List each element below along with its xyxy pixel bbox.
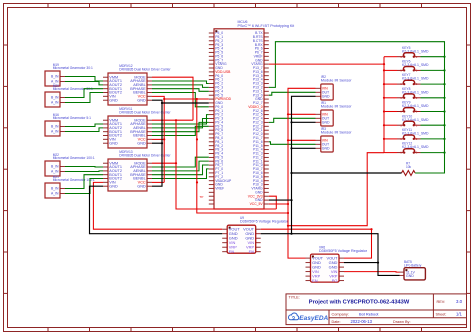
wire M22.B_IN to MDRV13.AOUT1	[65, 166, 103, 169]
wire rail to KEY6.1	[384, 69, 397, 71]
svg-text:DRV8835 Dual Motor Driver Carr: DRV8835 Dual Motor Driver Carrier	[119, 153, 171, 157]
svg-text:D36V50F5 Voltage Regulator: D36V50F5 Voltage Regulator	[319, 249, 368, 253]
EasyEDA logo	[288, 313, 328, 322]
wire rail to KEY7.1	[384, 83, 397, 85]
wire IR1.GND stub	[292, 121, 316, 123]
svg-text:PG: PG	[332, 278, 338, 283]
svg-text:A_IN: A_IN	[51, 101, 59, 105]
svg-text:VCC_5V: VCC_5V	[250, 202, 264, 206]
svg-text:EN: EN	[312, 278, 318, 283]
svg-text:A_IN: A_IN	[51, 170, 59, 174]
wire rail to KEY8.1	[384, 97, 397, 99]
svg-text:Date:: Date:	[332, 320, 341, 324]
svg-text:GND: GND	[406, 274, 414, 278]
wire M21.B_IN to MDRV13.BOUT1	[65, 175, 103, 189]
battery BAT5 LiPo	[400, 260, 426, 280]
svg-text:Micrometal Gearmotor 100:1: Micrometal Gearmotor 100:1	[53, 178, 95, 182]
wire MDRV13.APHASE to MCU	[152, 157, 209, 167]
svg-text:B_IN: B_IN	[51, 165, 59, 169]
svg-text:GND: GND	[322, 121, 330, 125]
voltage regulator U9 D36V50F5	[222, 216, 289, 254]
wire VR6.VIN to BAT5 11.1V	[344, 271, 400, 274]
svg-text:GND: GND	[137, 141, 146, 145]
wire M19.B_IN to MDRV12.AOUT1	[65, 77, 103, 82]
wire MDRV11.AENBL to MCU	[152, 119, 209, 128]
motor M19 Micrometal Gearmotor 30:1	[45, 63, 93, 86]
svg-text:Micrometal Gearmotor 5:1: Micrometal Gearmotor 5:1	[53, 116, 91, 120]
wire KEY6.2 to bus	[421, 69, 445, 71]
IR sensor IR1 Module IR Sensor	[316, 101, 353, 126]
svg-text:A_IN: A_IN	[51, 130, 59, 134]
svg-text:EasyEDA: EasyEDA	[299, 315, 328, 322]
junction GND left	[161, 102, 163, 104]
wire MDRV13.BPHASE to MCU	[152, 165, 209, 175]
wire IR3.GND stub	[292, 147, 316, 149]
wire MDRV11.VCC stub	[152, 138, 164, 140]
wire MCU to key bus net KEYS	[269, 42, 445, 173]
motor M21 Micrometal Gearmotor 100:1	[45, 175, 95, 198]
svg-text:Sheet:: Sheet:	[436, 313, 447, 317]
resistor R7 10k	[402, 161, 416, 175]
svg-text:Company:: Company:	[332, 313, 349, 317]
wire MDRV12.BPHASE to MCU	[152, 89, 209, 92]
wire driver right GND bus	[152, 100, 162, 186]
svg-text:GND: GND	[137, 98, 146, 102]
svg-text:Micrometal Gearmotor 30:1: Micrometal Gearmotor 30:1	[53, 66, 93, 70]
wire KEY12.2 to bus	[421, 152, 445, 154]
svg-text:A_IN: A_IN	[51, 192, 59, 196]
wire MCU VCC_5V link	[269, 203, 288, 205]
wire rail to KEY5.1	[384, 56, 397, 58]
push button KEY9	[397, 101, 429, 114]
push button KEY11	[397, 128, 429, 141]
wire MDRV13.MODE stub	[152, 162, 176, 164]
svg-text:VREF: VREF	[215, 187, 224, 191]
pin1 markers	[215, 30, 407, 271]
svg-text:B_IN: B_IN	[51, 125, 59, 129]
svg-text:Project with CY8CPROTO-062-434: Project with CY8CPROTO-062-4343W	[309, 300, 410, 306]
svg-text:DRV8835 Dual Motor Driver Carr: DRV8835 Dual Motor Driver Carrier	[119, 67, 171, 71]
motor M16 Micrometal Gearmotor 5:1	[45, 113, 91, 136]
svg-text:Module IR Sensor: Module IR Sensor	[321, 105, 352, 109]
svg-text:REV:: REV:	[437, 300, 446, 304]
svg-text:TP: TP	[200, 195, 204, 199]
wire MDRV13 left GND to U9.GND	[90, 186, 223, 234]
wire MDRV13.BENBL to MCU	[152, 169, 209, 179]
wire IR GND bus	[292, 96, 316, 233]
svg-text:Module IR Sensor: Module IR Sensor	[321, 79, 352, 83]
wire M22.A_IN to MDRV13.AOUT2	[65, 170, 103, 173]
wire MDRV11.MODE stub	[152, 119, 193, 121]
wire MDRV11.APHASE to MCU	[152, 115, 209, 124]
title block text	[289, 295, 447, 324]
svg-text:DRV8835 Dual Motor Driver Carr: DRV8835 Dual Motor Driver Carrier	[119, 110, 171, 114]
wire MCU to IR3.OUT	[269, 142, 316, 145]
wire MCU GND down	[269, 199, 292, 201]
wire KEY7.2 to bus	[421, 83, 445, 85]
motor driver MDRV11 DRV8835	[103, 107, 171, 148]
wire MDRV13.VCC stub	[152, 181, 164, 183]
title block values	[351, 299, 463, 324]
wire MODE bus down to VCC_3V3	[152, 77, 276, 209]
motor M22 Micrometal Gearmotor 100:1	[45, 153, 95, 176]
wire MCU VCC_3V3 link	[269, 196, 277, 209]
wire VR6.GND to GND net	[344, 262, 378, 264]
wire MCU VTARG to key rail	[269, 63, 384, 65]
wire MDRV12.APHASE to MCU	[152, 81, 209, 84]
wire rail to KEY11.1	[384, 138, 397, 140]
svg-text:GND: GND	[137, 184, 146, 188]
wire MDRV11.GND stub	[152, 142, 162, 144]
IR sensor IR2 Module IR Sensor	[316, 75, 353, 100]
motor driver MDRV13 DRV8835	[103, 150, 171, 191]
motor M20 Micrometal Gearmotor 30:1	[45, 84, 93, 107]
svg-text:GND: GND	[109, 98, 118, 102]
title block	[286, 294, 467, 325]
wire IR VIN bus to VR6.VOUT	[288, 88, 316, 258]
motor driver MDRV12 DRV8835	[103, 64, 171, 105]
wire MDRV13.AENBL to MCU	[152, 161, 209, 171]
wire M16.A_IN to MDRV11.AOUT2	[65, 128, 103, 132]
wire rail to KEY10.1	[384, 124, 397, 126]
wire U9.GND to BAT5.GND	[261, 234, 400, 276]
voltage regulator VR6 D36V50F5	[306, 245, 368, 282]
wire IR3.VIN stub	[288, 139, 316, 141]
wire KEY8.2 to bus	[421, 97, 445, 99]
wire M21.A_IN to MDRV13.BOUT2	[65, 179, 103, 194]
svg-text:GND: GND	[109, 141, 118, 145]
wire key rail vertical	[383, 57, 385, 153]
push button KEY5	[397, 46, 429, 59]
wire M16.B_IN to MDRV11.AOUT1	[65, 124, 103, 127]
wire MDRV13.VIN to U9.VOUT	[93, 182, 222, 229]
svg-text:Drawn By:: Drawn By:	[393, 320, 411, 324]
wire IR1.VIN stub	[288, 113, 316, 115]
wire KEY5.2 to bus	[421, 56, 445, 58]
junction VCC-PWR/VDD	[196, 98, 198, 100]
wire MCU to IR1.OUT	[269, 118, 316, 122]
svg-text:B_IN: B_IN	[51, 75, 59, 79]
svg-text:LiPo Battery: LiPo Battery	[404, 263, 422, 267]
wire VCC link to key bus	[288, 153, 384, 226]
wire M19.A_IN to MDRV12.AOUT2	[65, 82, 103, 85]
svg-text:Module IR Sensor: Module IR Sensor	[321, 131, 352, 135]
wire M20.A_IN to MDRV12.BOUT2	[65, 93, 103, 103]
push button KEY10	[397, 114, 429, 127]
wire rail to KEY12.1	[384, 152, 397, 154]
svg-text:EN: EN	[249, 249, 255, 254]
svg-text:GND: GND	[322, 95, 330, 99]
svg-text:Bot Reboot: Bot Reboot	[359, 312, 379, 317]
svg-text:2022-06-13: 2022-06-13	[351, 319, 373, 324]
wire MCU GND left to GND bus	[162, 102, 209, 104]
svg-text:D36V50F5 Voltage Regulator: D36V50F5 Voltage Regulator	[240, 220, 289, 224]
wire KEY10.2 to bus	[421, 124, 445, 126]
wire VCC bus	[152, 96, 288, 213]
svg-text:GND: GND	[109, 184, 118, 188]
svg-text:1/1: 1/1	[456, 312, 462, 317]
svg-text:Micrometal Gearmotor 100:1: Micrometal Gearmotor 100:1	[53, 156, 95, 160]
push button KEY8	[397, 87, 429, 100]
svg-text:PSoC™ 6 Wi-Fi BT Prototyping K: PSoC™ 6 Wi-Fi BT Prototyping Kit	[238, 24, 295, 28]
push button KEY12	[397, 142, 429, 155]
MCU U1 PSoC 6 prototyping kit	[209, 20, 294, 209]
wire MDRV11.BPHASE to MCU	[152, 122, 209, 131]
svg-text:EN: EN	[229, 249, 235, 254]
svg-text:10k: 10k	[406, 165, 412, 169]
wire MDRV12.BENBL to MCU	[152, 93, 209, 107]
wire rail to KEY9.1	[384, 111, 397, 113]
svg-text:3.0: 3.0	[456, 299, 463, 304]
wire MDRV12.AENBL to MCU	[152, 85, 209, 88]
IR sensor IR3 Module IR Sensor	[316, 127, 353, 152]
wire GND to R7	[292, 172, 402, 174]
wire M20.B_IN to MDRV12.BOUT1	[65, 89, 103, 98]
svg-text:GND: GND	[322, 147, 330, 151]
wire MDRV11.BENBL to MCU	[152, 126, 209, 135]
svg-text:TITLE:: TITLE:	[289, 295, 300, 299]
svg-text:B_IN: B_IN	[51, 187, 59, 191]
wire MCU to IR2.OUT	[269, 92, 316, 95]
push button KEY6	[397, 60, 429, 73]
push button KEY7	[397, 73, 429, 86]
wire KEY11.2 to bus	[421, 138, 445, 140]
svg-text:B_IN: B_IN	[51, 96, 59, 100]
wire KEY9.2 to bus	[421, 111, 445, 113]
wire U9.VOUT to VR6.VOUT	[261, 229, 372, 258]
